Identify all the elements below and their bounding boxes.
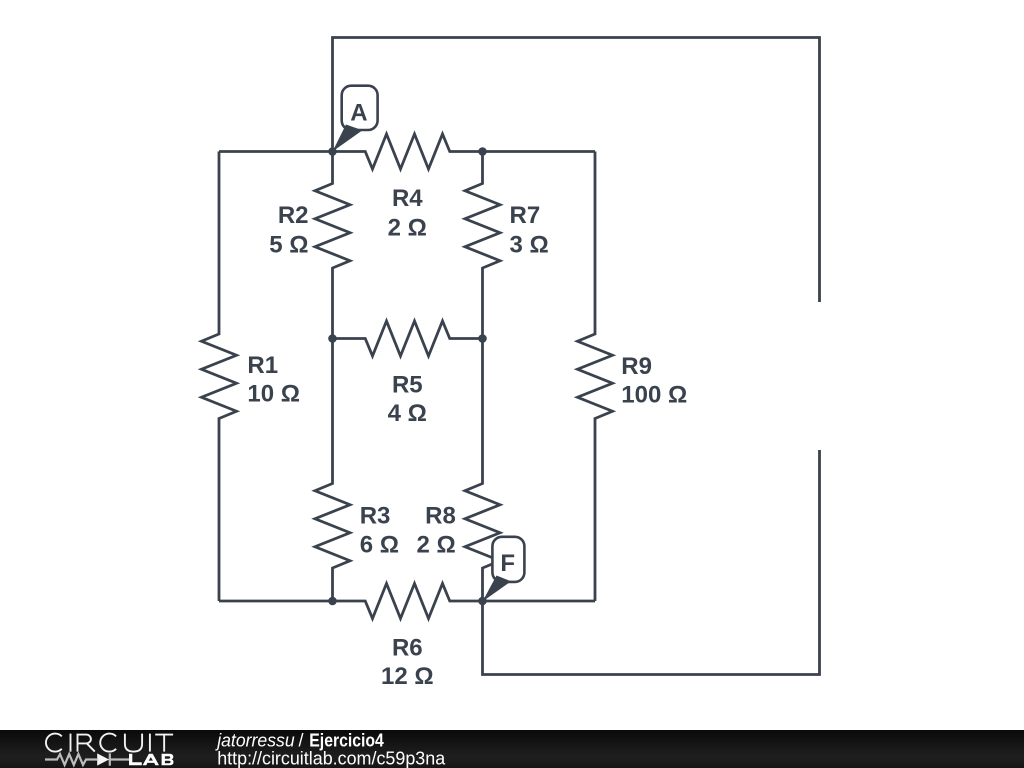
svg-text:R612 Ω: R612 Ω (381, 634, 434, 690)
node F flag (483, 537, 525, 602)
resistor R5 (333, 321, 483, 356)
wire row A right: R4 right node to R9 top (483, 150, 596, 153)
junction dot mid-right (478, 334, 487, 343)
resistor R3 (315, 339, 350, 602)
resistor R8 (465, 339, 500, 602)
resistor R6 (333, 584, 483, 619)
svg-text:A: A (350, 99, 367, 126)
svg-text:http://circuitlab.com/c59p3na: http://circuitlab.com/c59p3na (217, 748, 446, 768)
resistor R2 (315, 152, 350, 339)
svg-text:R25 Ω: R25 Ω (269, 202, 308, 258)
resistor R4 (333, 134, 483, 169)
wire row A left: node A to R1 top (219, 150, 333, 153)
junction dot R4/R7 (478, 147, 487, 156)
resistor R7 (465, 152, 500, 339)
svg-text:F: F (500, 550, 515, 577)
wire top loop from node A up and around to right side (333, 38, 820, 303)
resistor R9 (578, 152, 613, 602)
junction dot mid-left (328, 334, 337, 343)
logo CIRCUIT wordmark (46, 734, 173, 752)
logo LAB (129, 754, 174, 765)
junction dot bottom-left (328, 597, 337, 606)
svg-text:R36 Ω: R36 Ω (360, 503, 399, 559)
node F junction dot (478, 597, 487, 606)
wire bottom right: node F to R9 bottom (483, 600, 596, 603)
node A flag (333, 86, 378, 152)
svg-text:R42 Ω: R42 Ω (388, 185, 427, 241)
svg-text:R73 Ω: R73 Ω (510, 202, 549, 258)
wire bottom left: R1 bottom to bottom node (219, 600, 333, 603)
wire bottom right from node F down and around right side (483, 450, 820, 675)
logo resistor-diode glyph (45, 753, 130, 765)
svg-text:R9100 Ω: R9100 Ω (621, 353, 687, 409)
node A junction dot (328, 147, 337, 156)
svg-text:R82 Ω: R82 Ω (417, 503, 456, 559)
svg-text:R110 Ω: R110 Ω (247, 352, 300, 408)
resistor R1 (202, 152, 237, 602)
logo diode triangle (97, 753, 109, 765)
svg-text:R54 Ω: R54 Ω (388, 371, 427, 427)
